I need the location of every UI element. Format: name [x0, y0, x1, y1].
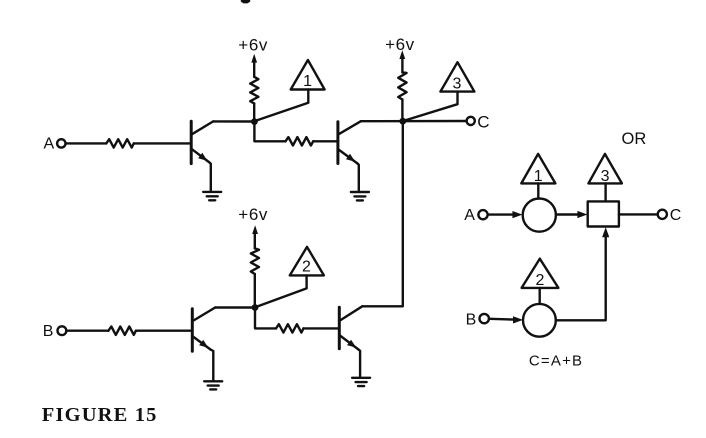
+6v supply arrow (stage A)	[251, 54, 257, 77]
logic triangle 2	[522, 259, 559, 290]
svg-text:OR: OR	[622, 130, 647, 148]
ground (Q4 emitter)	[352, 378, 370, 386]
logic OR circle A	[523, 199, 556, 232]
svg-text:+6v: +6v	[238, 35, 268, 54]
wire: triangle 1 to OR circle A	[537, 183, 539, 198]
svg-text:B: B	[43, 323, 54, 340]
wire: terminal B to R5	[67, 330, 109, 332]
svg-text:2: 2	[302, 259, 311, 276]
input terminal A	[57, 139, 65, 147]
ground (Q2 emitter)	[351, 192, 369, 200]
wire: triangle 2 stub to node N3	[257, 275, 307, 306]
wire: Q2 collector to node N2 and on to C terminal	[361, 120, 467, 123]
amplifier output triangle 3	[440, 62, 474, 92]
wire: Q3 collector to node N3	[215, 306, 255, 308]
wire: triangle 1 stub to node N1	[256, 90, 308, 121]
resistor R6 (load to +6v, stage B)	[251, 248, 259, 274]
svg-text:+6v: +6v	[238, 205, 268, 224]
output terminal C (logic)	[658, 210, 667, 219]
resistor R1 (input A base)	[106, 139, 134, 147]
wire with arrow: OR circle B up into box	[556, 227, 610, 320]
wire: triangle 2 to OR circle B	[539, 288, 541, 304]
wire: node N3 to R7	[255, 308, 276, 329]
resistor R4 (output load to +6v)	[398, 72, 406, 99]
node N2 (output junction)	[399, 118, 406, 125]
wire: node N3 to resistor R6	[254, 274, 256, 308]
wire: node N1 to resistor R2	[253, 104, 255, 122]
svg-text:3: 3	[601, 168, 610, 185]
svg-text:A: A	[44, 136, 55, 153]
amplifier output triangle 1	[291, 60, 325, 90]
wire: node N2 to resistor R4	[401, 100, 403, 122]
wire: R7 to Q4 base	[304, 327, 339, 329]
wire with arrow: OR circle A to box	[556, 211, 587, 218]
ground (Q1 emitter)	[203, 192, 221, 200]
wire: Q1 emitter to ground	[210, 163, 211, 192]
logic OR circle B	[523, 304, 556, 337]
svg-text:C: C	[477, 112, 489, 131]
wire: Q1 collector to node N1	[213, 120, 254, 122]
node N3 (Q3 collector junction)	[252, 304, 259, 311]
logic triangle 1	[521, 154, 555, 185]
svg-text:3: 3	[452, 75, 461, 92]
wire: Q4 emitter to ground	[359, 350, 361, 378]
wire: node N1 to R3	[254, 122, 285, 142]
wire: triangle 3 to box	[604, 183, 606, 201]
input terminal B (logic)	[480, 314, 489, 323]
stray cropped glyph fragment (top edge)	[241, 0, 250, 3]
wire: triangle 3 stub to node N2	[404, 92, 457, 121]
wire: box to terminal C (logic)	[619, 213, 657, 215]
ground (Q3 emitter)	[204, 381, 222, 389]
resistor R5 (input B base)	[108, 327, 135, 335]
transistor Q4	[339, 306, 362, 349]
svg-text:C: C	[670, 207, 682, 224]
svg-text:B: B	[466, 312, 477, 329]
wire: R3 to Q2 base	[313, 140, 337, 142]
wire: terminal A to R1	[66, 142, 107, 144]
wire: Q2 emitter to ground	[358, 164, 359, 192]
resistor R7 (coupling B)	[276, 324, 304, 332]
wire: R5 to Q3 base	[136, 330, 191, 332]
logic box U3 (output OR element)	[588, 201, 619, 226]
wire with arrow: terminal B to OR circle B	[489, 316, 523, 323]
wire with arrow: terminal A to OR circle A	[488, 211, 523, 218]
logic triangle 3	[588, 154, 622, 185]
transistor Q1	[191, 121, 213, 163]
node N1 (Q1 collector junction)	[251, 118, 258, 125]
transistor Q3	[192, 308, 215, 352]
svg-text:C=A+B: C=A+B	[529, 353, 583, 370]
transistor Q2	[338, 121, 361, 163]
output terminal C	[467, 117, 475, 125]
svg-text:+6v: +6v	[385, 35, 415, 54]
wire: Q3 emitter to ground	[211, 350, 214, 381]
svg-text:1: 1	[303, 73, 312, 90]
svg-text:A: A	[464, 207, 475, 224]
resistor R3 (coupling A)	[286, 137, 314, 145]
+6v supply arrow (output)	[399, 50, 405, 72]
input terminal A (logic)	[478, 210, 487, 219]
svg-text:2: 2	[536, 272, 545, 289]
+6v supply arrow (stage B)	[252, 225, 258, 248]
input terminal B	[58, 326, 67, 335]
wire: node N2 down to Q4 collector	[362, 121, 403, 306]
wire: R1 to Q1 base	[134, 142, 190, 144]
resistor R2 (load to +6v)	[250, 77, 258, 104]
amplifier output triangle 2	[290, 247, 324, 276]
svg-text:FIGURE 15: FIGURE 15	[42, 404, 158, 426]
